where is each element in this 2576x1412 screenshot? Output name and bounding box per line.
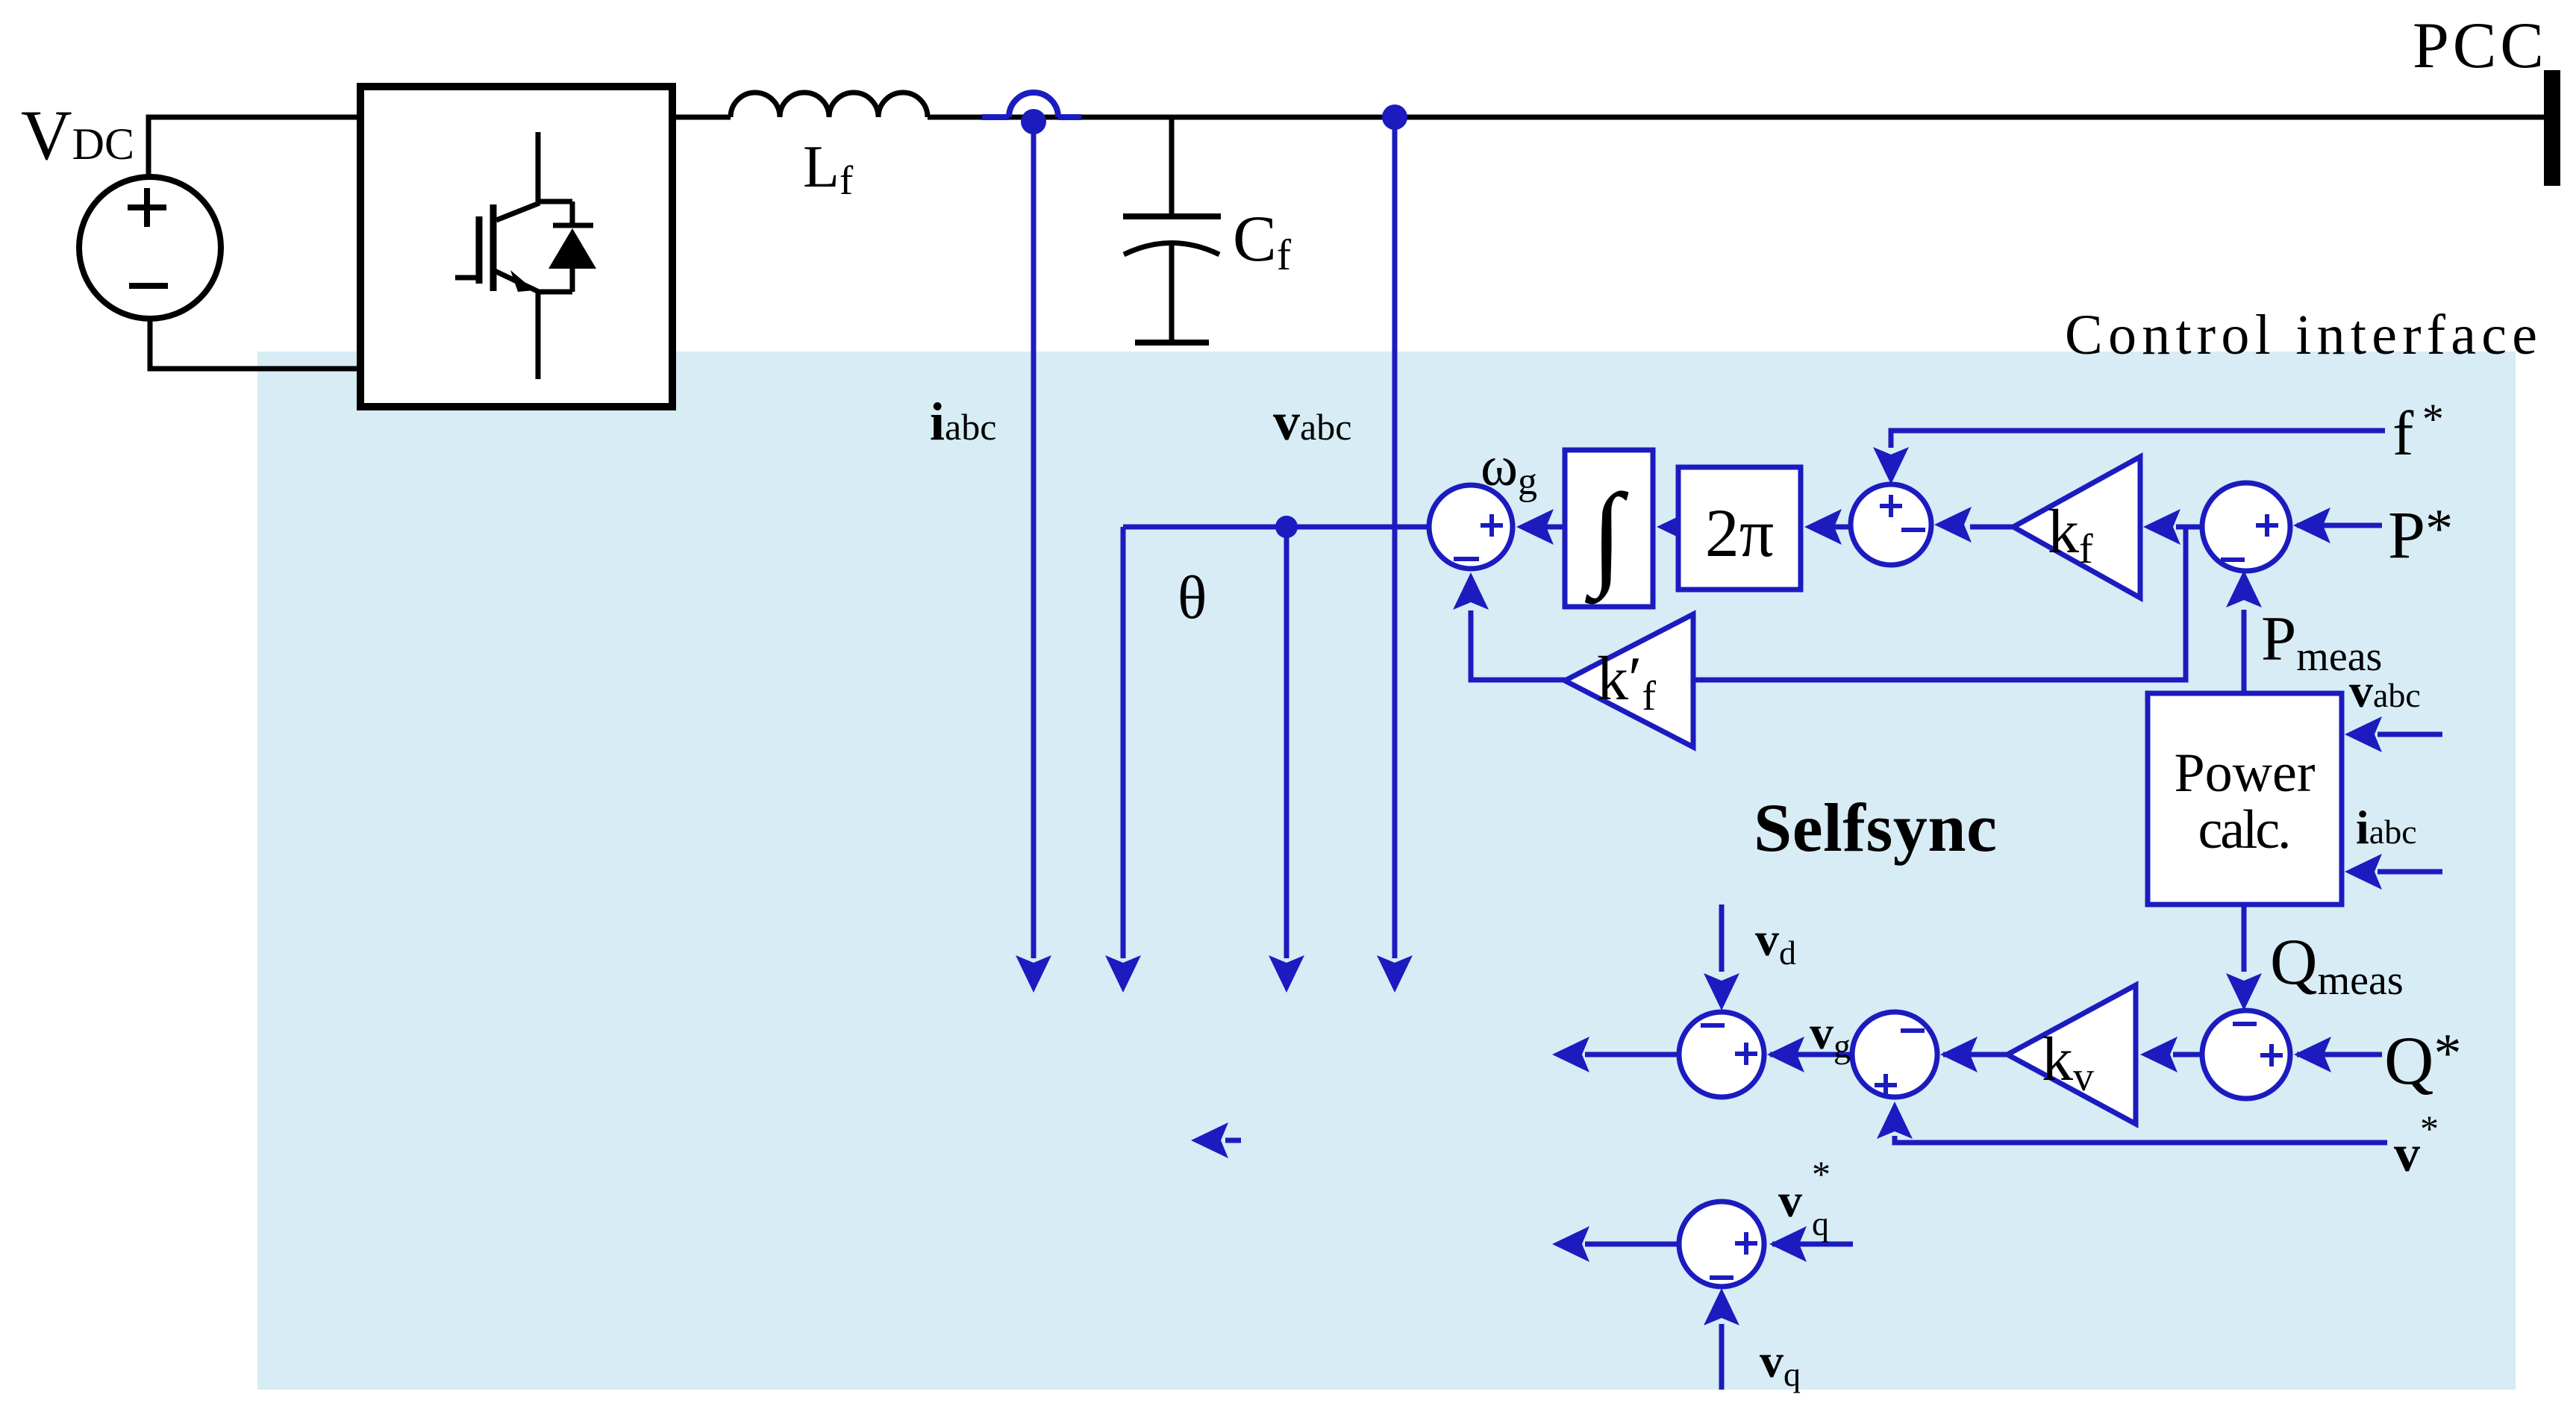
PCC bar (2544, 70, 2560, 186)
inverter box (360, 87, 672, 407)
summing junction S1 (omega_g) (1429, 485, 1513, 569)
vq input (1719, 1324, 1725, 1390)
S7 output (1585, 1242, 1679, 1247)
summing junction S5 (vg) (1852, 1012, 1937, 1097)
summing junction S2 (1851, 484, 1931, 565)
svg-text:∫: ∫ (1585, 470, 1629, 605)
summing junction S7 (1679, 1202, 1764, 1287)
svg-text:Power: Power (2175, 743, 2316, 804)
Pmeas vertical (2242, 610, 2247, 693)
vd input (1719, 905, 1725, 972)
summing junction S6 (1679, 1012, 1764, 1097)
Qmeas vertical (2242, 905, 2247, 972)
svg-text:calc.: calc. (2198, 799, 2292, 860)
gain kf triangle (2013, 457, 2140, 598)
v* line (1895, 1136, 2387, 1143)
vq* input (1772, 1242, 1853, 1247)
S6 output to voltage control (1585, 1052, 1679, 1058)
summing junction S4 (2202, 1010, 2290, 1099)
theta net: S1 output to current/voltage boxes (1123, 527, 1429, 958)
svg-text:q: q (1812, 1205, 1829, 1243)
wire VDC bottom (150, 316, 360, 369)
kv to S5 (1943, 1052, 2007, 1058)
IGBT emitter arrow (510, 270, 534, 292)
main top wire (672, 115, 2551, 120)
2pi box (1678, 467, 1801, 590)
svg-text:PCC: PCC (2413, 10, 2544, 82)
summing junction S3 (2202, 483, 2290, 571)
svg-text:*: * (1812, 1153, 1831, 1195)
svg-text:Control interface: Control interface (2065, 304, 2537, 366)
integrator box (1565, 450, 1653, 607)
wire f* (1471, 431, 2385, 693)
iabc vertical line (1031, 130, 1037, 958)
wire vabc into power calc (1225, 734, 2442, 1390)
S4 to kv (2173, 1052, 2202, 1058)
gain kv triangle (2007, 985, 2136, 1124)
voltage source VDC (79, 177, 221, 319)
svg-text:θ: θ (1178, 563, 1207, 631)
gain k'f triangle (1565, 614, 1693, 747)
inductor Lf (731, 93, 928, 117)
svg-text:Selfsync: Selfsync (1754, 790, 1997, 866)
capacitor Cf branch (1169, 117, 1175, 216)
svg-text:2π: 2π (1705, 495, 1774, 571)
svg-text:v: v (1778, 1174, 1802, 1227)
iabc tap wire segment and hop (982, 114, 1081, 120)
IGBT symbol (455, 132, 593, 379)
k'f feedback tap (1693, 529, 2186, 680)
control panel background (257, 352, 2516, 1390)
IGBT diode (548, 228, 596, 269)
S5 to S6 (1770, 1052, 1852, 1058)
Q* input (2297, 1052, 2382, 1058)
wire VDC top (149, 117, 360, 179)
voltage to current arrow (1225, 1138, 1241, 1143)
vabc vertical line (1392, 117, 1398, 958)
